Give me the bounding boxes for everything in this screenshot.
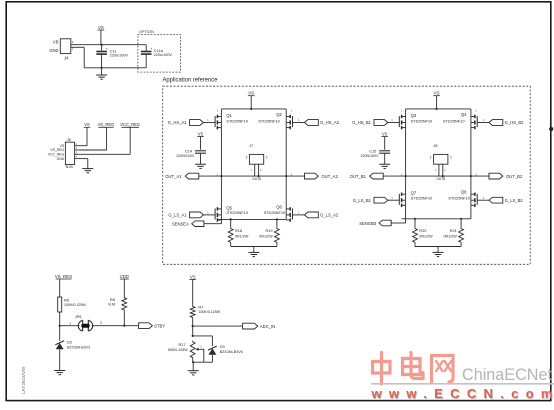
transistor Q4 — [470, 109, 472, 176]
svg-text:LAY2615/VW: LAY2615/VW — [21, 366, 26, 394]
svg-text:GND: GND — [49, 48, 58, 53]
svg-text:R8: R8 — [110, 297, 115, 302]
resistor R21 — [460, 218, 462, 220]
svg-text:OPTION: OPTION — [139, 29, 154, 34]
resistor R7 — [190, 305, 195, 318]
capacitor C15 — [379, 151, 390, 153]
wire R6 to STBY node — [59, 312, 61, 326]
wire J6 pin3 to VCC_REG flag — [79, 153, 130, 155]
svg-text:VS: VS — [84, 122, 90, 127]
wire drain rail half B — [406, 108, 471, 110]
node junction Q3 source / out rail — [405, 175, 407, 177]
wire source rail half B — [402, 218, 471, 220]
resistor R8 — [122, 297, 127, 312]
transistor Q5 — [220, 176, 222, 224]
svg-text:VS: VS — [198, 131, 204, 136]
resistor R19 — [276, 218, 278, 220]
flag STBY — [139, 323, 153, 329]
node junction Q2 source / out rail — [285, 175, 287, 177]
ground below C15 — [379, 164, 390, 168]
svg-text:R21: R21 — [450, 228, 457, 233]
wire R7 to ADC node — [192, 319, 194, 336]
svg-text:VS: VS — [434, 91, 440, 96]
node junction R8 / STBY wire — [123, 325, 125, 327]
ground below J6 — [82, 169, 93, 173]
svg-text:0R1/2W: 0R1/2W — [443, 235, 457, 239]
node junction C11 bottom — [101, 67, 103, 69]
svg-text:JP6: JP6 — [75, 315, 82, 319]
wire source rail half A — [217, 218, 286, 220]
svg-text:Q3: Q3 — [411, 113, 417, 118]
wire sense resistor bottom rail half B — [415, 246, 461, 248]
transistor Q6 — [285, 176, 287, 219]
wire J6 pin4 to ground — [79, 158, 88, 160]
wire J4 pin1 down to ground rail — [71, 46, 84, 48]
svg-text:SENSEB: SENSEB — [359, 221, 376, 226]
node junction VS rail / C11 — [101, 44, 103, 46]
svg-text:G_HS_B1: G_HS_B1 — [352, 120, 372, 125]
wire J4 pin2 to VS rail — [71, 44, 146, 46]
svg-text:R18: R18 — [235, 228, 242, 233]
flag G_HS_B2 — [489, 120, 503, 126]
svg-text:OUT_B2: OUT_B2 — [506, 174, 523, 179]
node junction Q4 source / out rail — [470, 175, 472, 177]
ground half B — [437, 247, 439, 253]
wire gate Q4 — [477, 122, 489, 124]
wire gate Q7 — [388, 199, 400, 201]
svg-text:BZX284-B3V3: BZX284-B3V3 — [67, 346, 90, 350]
transistor Q7 — [405, 176, 407, 223]
capacitor C14 — [195, 151, 206, 153]
node junction D3 branch — [192, 335, 194, 337]
svg-text:STD25NF10: STD25NF10 — [443, 119, 465, 124]
svg-text:N.M.: N.M. — [66, 165, 74, 169]
svg-text:G_HS_A2: G_HS_A2 — [320, 120, 340, 125]
svg-text:N.M.: N.M. — [108, 303, 116, 307]
flag OUT_B2 — [489, 173, 503, 179]
transistor Q2 — [285, 109, 287, 176]
svg-text:50K/0.125W: 50K/0.125W — [168, 348, 188, 352]
svg-text:OUT_A1: OUT_A1 — [165, 174, 182, 179]
svg-text:STD25NF10: STD25NF10 — [226, 119, 248, 124]
wire sense resistor bottom rail half A — [231, 246, 277, 248]
svg-text:STD25NF10: STD25NF10 — [411, 196, 433, 201]
svg-text:Application reference: Application reference — [163, 76, 219, 83]
wire to ADC_IN flag — [193, 325, 243, 327]
svg-text:2: 2 — [100, 321, 102, 325]
svg-text:1: 1 — [246, 155, 248, 159]
svg-text:R17: R17 — [178, 342, 185, 347]
wire gate Q8 — [477, 199, 489, 201]
ground below C14 — [195, 164, 206, 168]
resistor R18 — [230, 218, 232, 220]
svg-text:VS: VS — [190, 274, 196, 279]
svg-text:Q2: Q2 — [276, 112, 282, 117]
svg-text:Q4: Q4 — [461, 112, 467, 117]
svg-text:C14: C14 — [185, 148, 193, 153]
svg-text:G_LS_A2: G_LS_A2 — [320, 213, 339, 218]
svg-text:G_LS_A1: G_LS_A1 — [168, 213, 187, 218]
flag ADC_IN — [243, 323, 258, 329]
ground below D2 — [54, 371, 65, 375]
svg-text:OUTA: OUTA — [252, 177, 262, 181]
svg-text:2: 2 — [266, 155, 268, 159]
svg-text:VS: VS — [382, 131, 388, 136]
capacitor C11a (optional) — [145, 45, 147, 51]
svg-text:R19: R19 — [265, 228, 272, 233]
svg-text:0R1/2W: 0R1/2W — [235, 235, 249, 239]
svg-text:STD25NF10: STD25NF10 — [226, 210, 248, 215]
svg-text:220u/100V: 220u/100V — [110, 54, 129, 58]
transistor Q3 — [405, 109, 407, 176]
wire R8 to STBY node — [123, 311, 125, 326]
svg-text:OUT_A2: OUT_A2 — [322, 174, 339, 179]
svg-text:VS: VS — [98, 25, 104, 30]
ground half A — [253, 247, 255, 253]
svg-text:VS_REG: VS_REG — [98, 122, 115, 127]
svg-text:100K/0.125W: 100K/0.125W — [198, 310, 220, 314]
flag G_LS_B2 — [489, 197, 503, 203]
svg-text:ADC_IN: ADC_IN — [260, 324, 275, 329]
svg-text:STBY: STBY — [154, 323, 165, 328]
svg-text:GND: GND — [57, 157, 65, 161]
node junction R6/JP6/D2 — [59, 325, 61, 327]
svg-text:2: 2 — [450, 155, 452, 159]
svg-text:+: + — [106, 47, 108, 51]
node junction bottom rail / ground — [192, 361, 194, 363]
svg-text:R6: R6 — [64, 298, 69, 303]
svg-text:Q6: Q6 — [276, 204, 282, 209]
svg-text:220N/100V: 220N/100V — [361, 154, 380, 158]
node junction Q1 source / out rail — [220, 175, 222, 177]
wire gate Q5 — [203, 214, 215, 216]
wire J8 pin stubs to output rail — [438, 164, 440, 176]
svg-text:G_LS_B2: G_LS_B2 — [505, 198, 524, 203]
svg-text:0R1/2W: 0R1/2W — [419, 235, 433, 239]
svg-text:STD25NF10: STD25NF10 — [264, 210, 286, 215]
wire JP6 to STBY flag — [92, 325, 139, 327]
svg-text:VS_REG: VS_REG — [55, 274, 73, 279]
svg-text:R20: R20 — [419, 228, 427, 233]
svg-text:OUTB: OUTB — [436, 177, 446, 181]
node junction VS / drain rail A — [250, 108, 252, 110]
svg-text:VDD: VDD — [120, 274, 129, 279]
R17 wiper — [198, 349, 204, 362]
node junction ADC_IN tap — [192, 325, 194, 327]
node junction VS / drain rail B — [436, 108, 438, 110]
wire gate Q3 — [388, 122, 400, 124]
capacitor C11 — [101, 45, 103, 51]
wire ground rail bottom — [84, 67, 146, 69]
wire STBY node to JP6 — [60, 325, 80, 327]
watermark rule — [371, 383, 554, 385]
transistor Q1 — [220, 109, 222, 176]
svg-text:R7: R7 — [198, 304, 203, 309]
wire gate Q1 — [203, 122, 215, 124]
svg-text:G_LS_B1: G_LS_B1 — [353, 198, 372, 203]
trimmer R17 — [190, 341, 195, 359]
svg-text:SENSEA: SENSEA — [172, 222, 189, 227]
ground below C11 — [101, 68, 103, 75]
transistor Q8 — [470, 176, 472, 219]
flag G_HS_A2 — [305, 120, 319, 126]
wire drain rail half A — [221, 108, 286, 110]
svg-text:BZX284-B3V6: BZX284-B3V6 — [220, 350, 243, 354]
svg-text:0R1/2W: 0R1/2W — [259, 235, 273, 239]
application reference dashed box — [163, 86, 531, 264]
resistor R6 — [58, 297, 62, 312]
wire gate Q2 — [293, 122, 305, 124]
svg-text:G_HS_B2: G_HS_B2 — [505, 120, 525, 125]
svg-text:D2: D2 — [67, 339, 72, 344]
connector J4 — [60, 39, 71, 54]
svg-text:OUT_B1: OUT_B1 — [350, 174, 367, 179]
svg-text:VB: VB — [53, 39, 59, 44]
wire output rail half A — [199, 175, 305, 177]
wire J7 pin stubs to output rail — [254, 164, 256, 176]
zener diode D3 — [208, 346, 217, 350]
svg-text:Q8: Q8 — [461, 190, 467, 195]
wire output rail half B — [383, 175, 489, 177]
svg-text:VCC_REG: VCC_REG — [120, 122, 140, 127]
svg-text:G_HS_A1: G_HS_A1 — [168, 120, 188, 125]
svg-text:www.ECCN.com: www.ECCN.com — [371, 386, 554, 401]
svg-text:STD25NF10: STD25NF10 — [411, 119, 433, 124]
watermark chinese logo (drawn strokes) — [373, 353, 454, 385]
wire J6 pin2 to VS_REG flag — [79, 149, 107, 151]
wire to D3 top — [193, 335, 213, 337]
svg-text:C15: C15 — [369, 148, 376, 153]
resistor R20 — [414, 218, 416, 220]
svg-text:220u/100V: 220u/100V — [154, 53, 173, 57]
svg-text:+: + — [150, 47, 152, 51]
wire SENSEB to Q7 source — [391, 222, 405, 224]
svg-text:STD25NF10: STD25NF10 — [448, 196, 470, 201]
svg-text:VS: VS — [248, 91, 254, 96]
svg-text:ChinaECNet: ChinaECNet — [462, 366, 552, 384]
wire D3/R17 bottom rail — [192, 359, 194, 362]
wire SENSEA to Q5 source — [204, 223, 222, 225]
wire J6 pin1 to VS flag — [79, 145, 87, 147]
ground below R17 — [192, 362, 194, 370]
svg-text:D3: D3 — [220, 344, 225, 349]
zener diode D2 — [59, 326, 61, 341]
svg-text:100K/0.125W: 100K/0.125W — [64, 303, 86, 307]
svg-text:J4: J4 — [64, 56, 69, 61]
mark on right frame edge — [549, 127, 553, 131]
wire gate Q6 — [293, 214, 305, 216]
svg-text:220N/100V: 220N/100V — [176, 154, 195, 158]
flag G_LS_A2 — [305, 212, 319, 218]
svg-text:STD25NF10: STD25NF10 — [258, 119, 280, 124]
svg-text:1: 1 — [430, 155, 432, 159]
flag OUT_A2 — [305, 173, 319, 179]
svg-text:1: 1 — [69, 321, 71, 325]
svg-text:Q1: Q1 — [226, 113, 232, 118]
